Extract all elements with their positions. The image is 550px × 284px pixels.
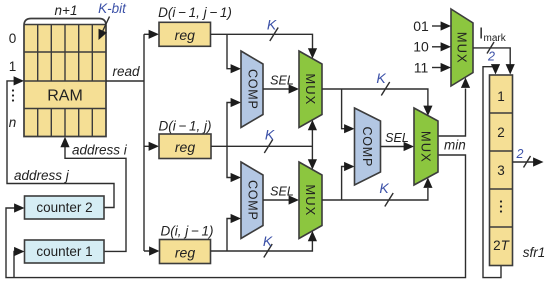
label K-bit with arrow: [98, 1, 127, 40]
svg-text:11: 11: [414, 60, 429, 76]
svg-text:COMP: COMP: [245, 69, 259, 110]
svg-text:D(i − 1, j): D(i − 1, j): [158, 119, 211, 134]
svg-text:K: K: [263, 233, 273, 249]
svg-text:3: 3: [497, 163, 505, 178]
mux MUX3: [299, 162, 322, 239]
wire MUX3 output K bus: [322, 162, 433, 207]
svg-text:10: 10: [413, 39, 429, 55]
svg-text:counter 1: counter 1: [36, 244, 92, 259]
svg-text:1: 1: [9, 59, 17, 74]
wire I mark output of MUX4: [473, 26, 515, 75]
svg-text:min: min: [444, 138, 466, 153]
wire MUX1 output K bus: [322, 70, 433, 133]
svg-text:K: K: [379, 180, 389, 196]
register R3: [160, 240, 211, 264]
comparator COMP1: [241, 51, 263, 128]
svg-text:MUX: MUX: [419, 131, 434, 163]
svg-text:2: 2: [516, 147, 524, 161]
svg-text:K: K: [267, 17, 277, 33]
mux MUX4: [451, 9, 473, 86]
comparator COMP2: [355, 108, 381, 185]
counter 2: [25, 196, 105, 219]
register R1: [159, 22, 211, 46]
svg-text:D(i, j − 1): D(i, j − 1): [160, 224, 213, 239]
svg-text:address i: address i: [72, 143, 128, 158]
svg-text:2T: 2T: [493, 238, 511, 253]
counter 1: [25, 240, 105, 263]
svg-text:MUX: MUX: [303, 73, 318, 105]
mux MUX1: [299, 51, 322, 128]
svg-text:SEL: SEL: [270, 74, 294, 88]
svg-text:n+1: n+1: [55, 3, 78, 18]
MUX4 input 11: [414, 60, 451, 76]
svg-text:COMP: COMP: [245, 180, 259, 221]
svg-text:SEL: SEL: [270, 185, 294, 199]
RAM array: [24, 19, 106, 137]
MUX4 input 10: [413, 39, 451, 55]
svg-text:reg: reg: [175, 27, 195, 43]
wire address i: [60, 137, 127, 252]
wire reg R3 output K bus: [211, 214, 318, 258]
wire read bus: [106, 30, 160, 256]
svg-text:RAM: RAM: [47, 88, 83, 105]
wire sfr1 output 2: [513, 147, 544, 168]
wire SEL2: [381, 131, 415, 151]
svg-text:MUX: MUX: [303, 184, 318, 216]
svg-text:01: 01: [413, 18, 429, 34]
mux MUX2: [414, 108, 438, 185]
svg-text:n: n: [9, 115, 17, 130]
svg-text:2: 2: [487, 50, 495, 64]
svg-text:address j: address j: [14, 168, 70, 183]
wire feedback loop to counters: [6, 155, 466, 278]
wire min to MUX4 select: [438, 78, 470, 153]
svg-text:COMP: COMP: [360, 126, 374, 167]
wire SEL3: [263, 185, 299, 205]
svg-text:K-bit: K-bit: [98, 1, 127, 16]
wire SEL1: [263, 74, 299, 94]
RAM row label dots: [12, 89, 14, 101]
svg-text:SEL: SEL: [385, 131, 409, 145]
svg-text:1: 1: [497, 89, 505, 104]
wire address j: [7, 76, 114, 207]
comparator COMP3: [241, 162, 263, 239]
wire reg R2 output K bus: [211, 98, 317, 182]
svg-text:D(i − 1, j − 1): D(i − 1, j − 1): [158, 5, 232, 20]
svg-text:counter 2: counter 2: [36, 200, 92, 215]
svg-text:K: K: [376, 70, 386, 86]
svg-text:MUX: MUX: [455, 32, 470, 64]
svg-text:read: read: [112, 64, 140, 79]
svg-text:sfr1: sfr1: [523, 245, 546, 260]
svg-text:mark: mark: [484, 33, 507, 44]
shift register sfr1 column: [490, 75, 513, 266]
svg-text:2: 2: [497, 125, 505, 140]
register R2: [159, 134, 211, 159]
wire sfr1 recirculation: [483, 64, 501, 278]
MUX4 input 01: [413, 18, 451, 34]
wire reg R1 output K bus: [211, 17, 318, 74]
svg-text:K: K: [265, 127, 275, 143]
svg-text:0: 0: [9, 31, 17, 46]
svg-text:reg: reg: [175, 244, 195, 260]
svg-text:reg: reg: [175, 139, 195, 155]
